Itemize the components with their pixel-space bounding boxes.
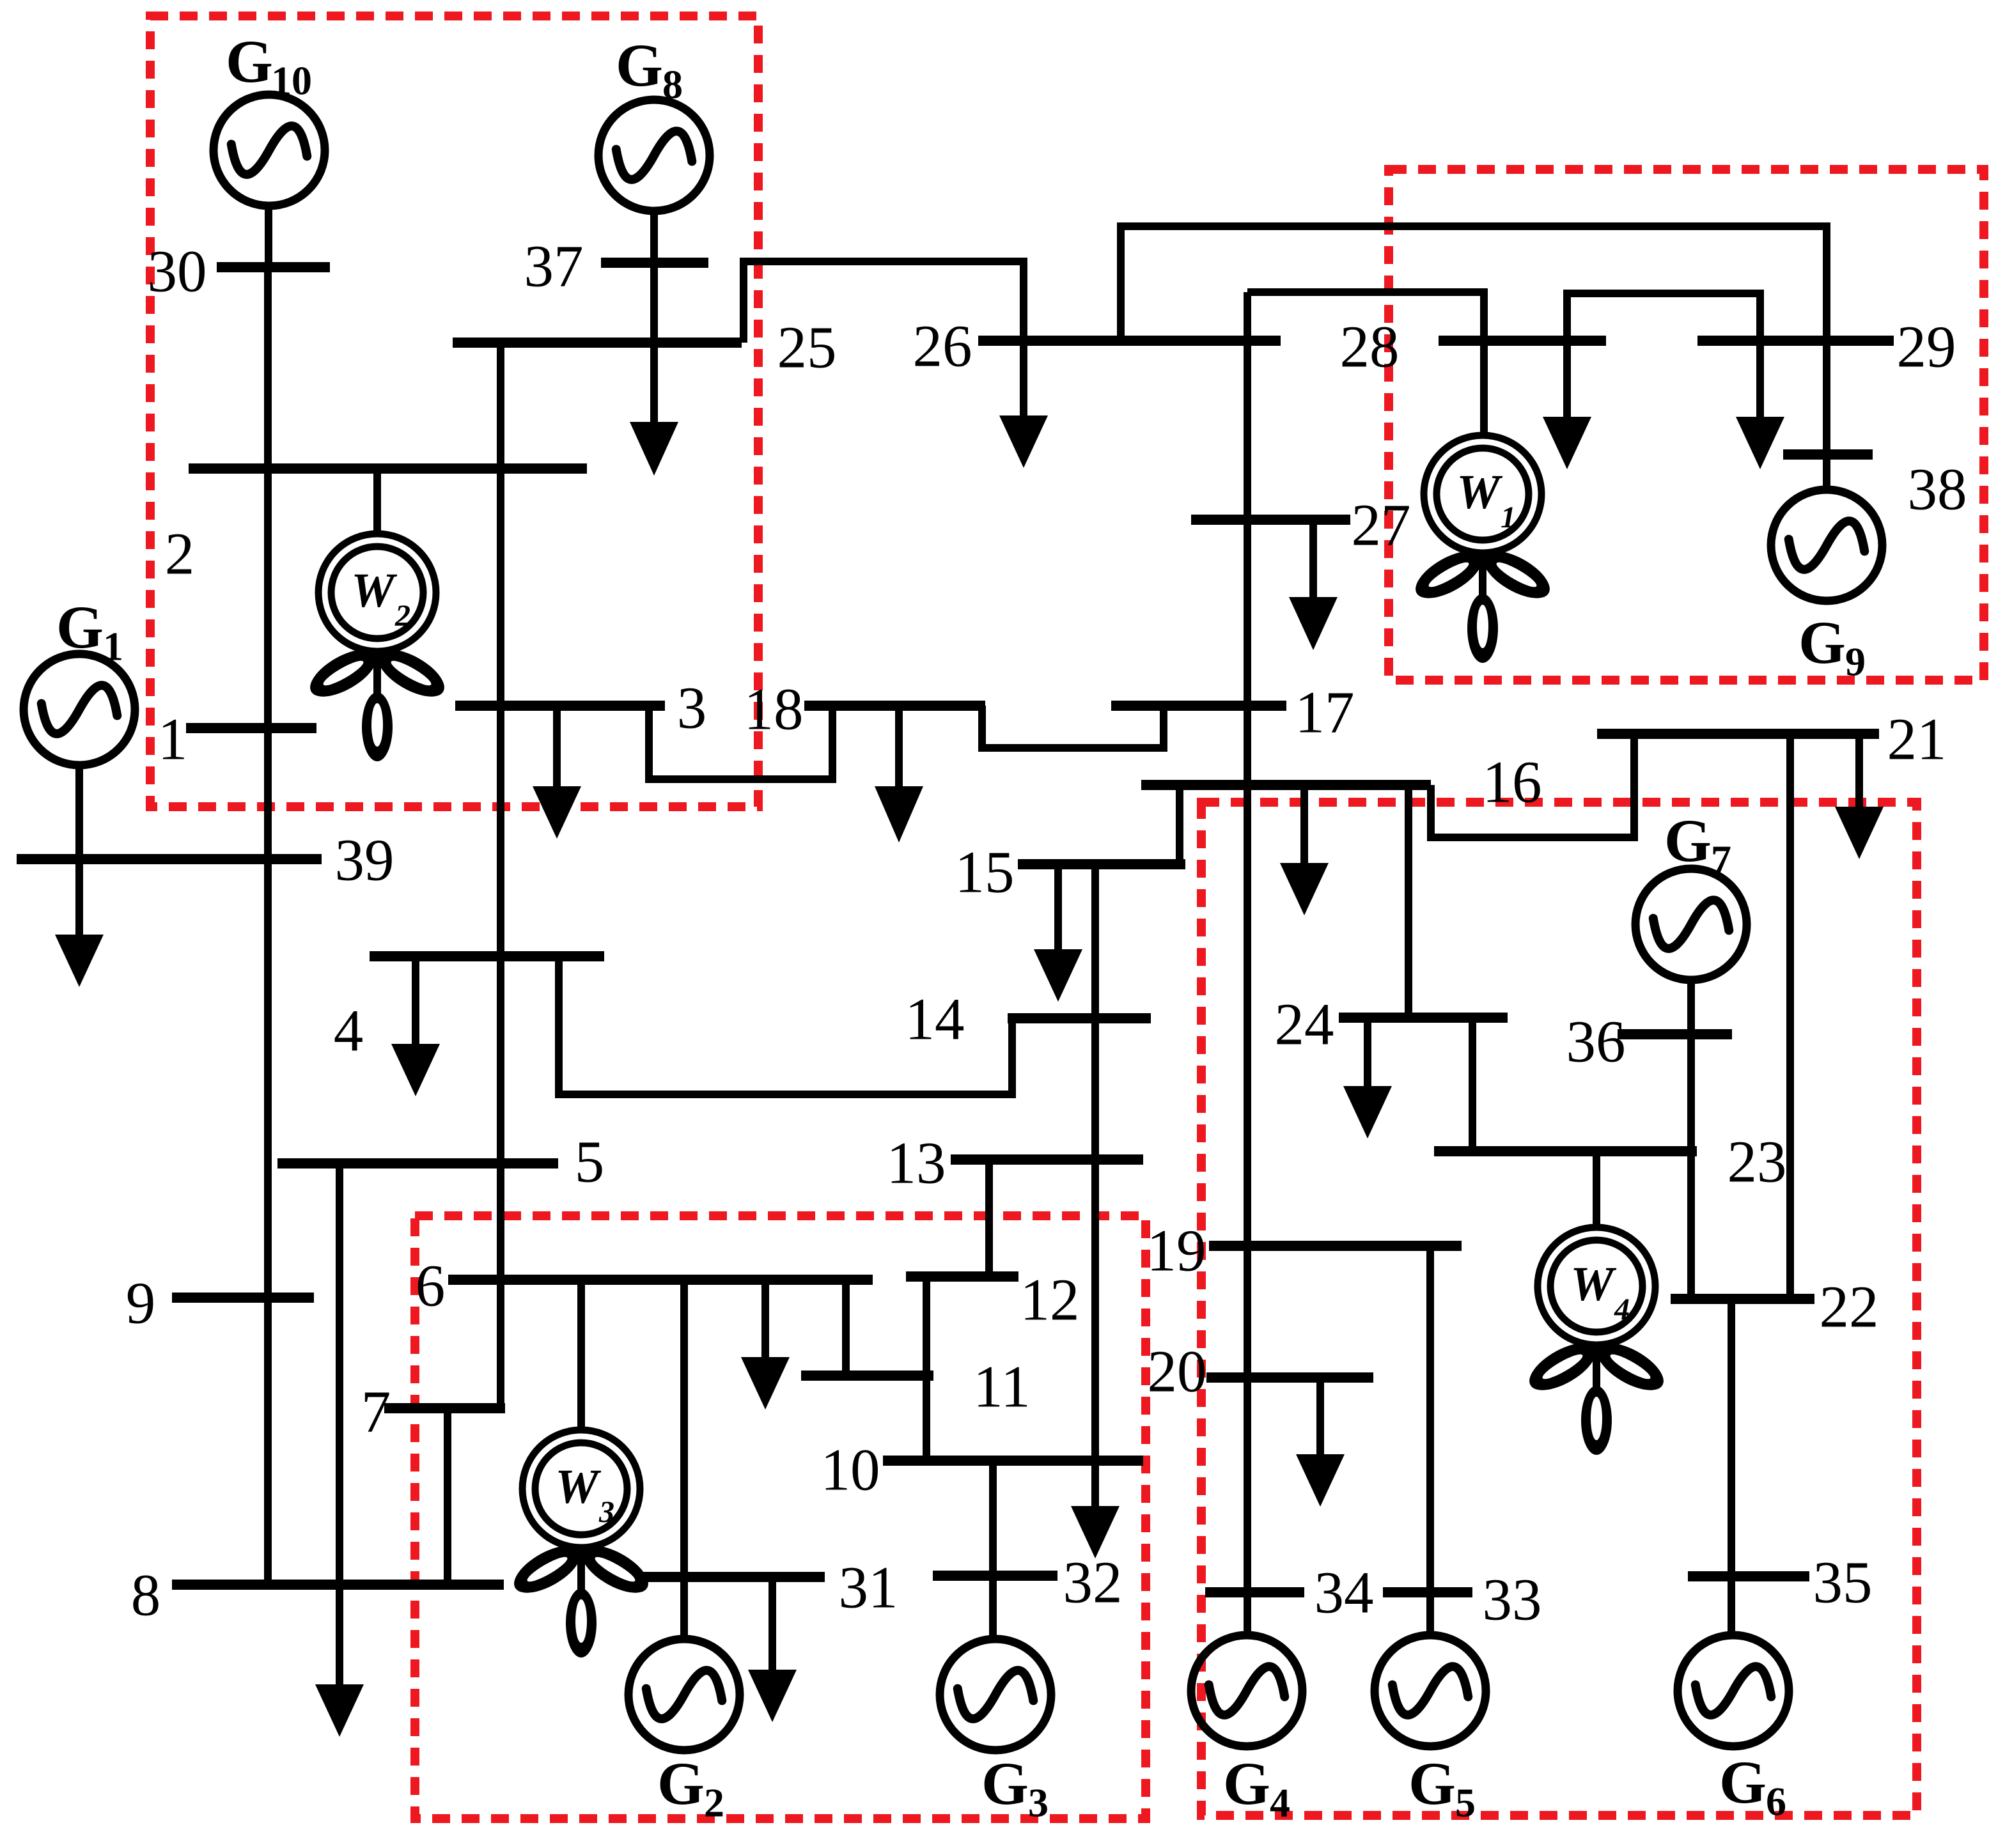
svg-text:23: 23 [1728,1130,1787,1195]
svg-text:9: 9 [1845,639,1866,685]
load arrow bus 3 [533,786,581,839]
svg-text:9: 9 [126,1271,156,1337]
bus 19 bar [1209,1241,1462,1251]
wire link bus3 to bus18 (lower U) [649,706,832,779]
svg-text:11: 11 [973,1355,1031,1420]
load arrow bus 20 [1296,1454,1345,1507]
bus 7 bar [384,1403,505,1413]
bus 38 bar [1783,449,1873,460]
svg-text:19: 19 [1147,1218,1206,1284]
bus 35 bar [1688,1571,1809,1581]
wire link bus25 to bus26 [744,261,1024,343]
svg-text:37: 37 [524,234,584,300]
svg-text:7: 7 [361,1379,391,1445]
svg-text:5: 5 [1455,1780,1476,1826]
red dashed partition box area 1 (buses 30,37,2,1,25-left) [150,16,758,807]
svg-text:20: 20 [1148,1339,1207,1405]
bus 16 bar [1141,780,1431,790]
red dashed partition box area 3 (buses 6,7,W3,31,32,G2,G3) [415,1216,1146,1819]
wire chain 12-11-10 vertical [923,1277,930,1461]
wire line 28-29 jog [1567,293,1760,417]
bus 29 bar [1697,336,1894,346]
load arrow bus 15 [1034,949,1082,1002]
svg-text:24: 24 [1275,992,1334,1058]
svg-text:G: G [616,31,663,99]
wire riser bus13 to bus12 [985,1160,993,1277]
svg-text:17: 17 [1295,680,1355,746]
bus 23 bar [1434,1146,1697,1156]
wire line 7-8 vertical [444,1408,451,1585]
bus 37 bar [601,258,708,268]
svg-text:16: 16 [1483,750,1542,816]
load arrow bus 28 [1543,417,1591,469]
wire chain 19-33-G5 vertical [1426,1246,1434,1636]
wire link bus18 to bus17 (lower U) [982,706,1164,748]
wire line 5-8 vertical with bus8 load arrow [336,1163,343,1686]
generator G8 symbol [598,100,710,211]
svg-text:32: 32 [1063,1550,1123,1616]
red dashed partition box area 4 (buses 19,20,34,33,22,23,35,W4,G4,G5,G6) [1201,802,1917,1815]
svg-text:G: G [1719,1748,1767,1816]
generator G5 symbol [1375,1635,1486,1746]
generator G3 symbol [940,1639,1051,1750]
wire chain 10-32-G3 vertical [989,1461,997,1639]
wire W3 stem to bus 6 [577,1280,585,1431]
svg-text:29: 29 [1897,314,1956,380]
svg-text:21: 21 [1887,707,1947,773]
bus 17 bar [1111,701,1286,711]
bus 36 bar [1618,1029,1732,1039]
svg-text:W: W [1456,465,1503,519]
svg-text:38: 38 [1908,457,1967,523]
svg-text:36: 36 [1566,1009,1626,1075]
svg-text:27: 27 [1352,493,1411,559]
generator G7 symbol [1635,869,1747,980]
bus 3 bar [455,701,665,711]
bus 34 bar [1205,1587,1304,1597]
wire chain 30-2-1-39-9-8 vertical [264,267,272,1585]
bus 27 bar [1191,515,1350,525]
load arrow bus 25 [630,422,678,476]
load arrow bus 18 [875,786,923,842]
wire chain 6-31-G2 vertical [680,1280,688,1639]
svg-text:33: 33 [1483,1567,1542,1633]
wind unit W3 symbol (bus 6) [507,1430,655,1658]
wire chain 15-14-13-10 vertical with bus10 load [1091,864,1099,1507]
bus 30 bar [217,262,330,272]
svg-text:W: W [555,1460,602,1514]
svg-text:14: 14 [905,987,965,1053]
svg-text:34: 34 [1315,1560,1374,1626]
bus 8 bar [172,1580,504,1590]
svg-text:35: 35 [1813,1550,1873,1616]
wire link bus16 to bus21 [1431,734,1634,837]
load arrow bus 31 [748,1670,797,1722]
svg-text:2: 2 [165,522,195,587]
bus 24 bar [1339,1013,1508,1023]
generator G9 symbol [1771,490,1882,601]
svg-text:5: 5 [575,1130,605,1195]
svg-text:4: 4 [1270,1780,1290,1826]
svg-text:3: 3 [598,1495,614,1529]
wire link 26-28 (upper jog) [1247,292,1484,435]
wire riser bus15 to bus16 [1176,785,1183,864]
wire link bus4 to bus14 [559,956,1012,1094]
svg-text:7: 7 [1711,837,1731,883]
generator G6 symbol [1678,1635,1789,1746]
svg-text:G: G [657,1750,705,1817]
svg-text:12: 12 [1020,1268,1080,1333]
bus 2 bar [189,463,587,474]
bus 22 bar [1671,1294,1814,1304]
load arrow bus 24 [1343,1086,1392,1138]
svg-text:G: G [226,27,273,95]
svg-text:G: G [1798,609,1846,676]
svg-text:W: W [351,564,398,617]
wire G1 stem through bus 39 to load arrow [75,763,83,936]
wire bus26 load arrow stem [1020,341,1027,417]
wind unit W1 symbol (bus 28) [1408,435,1557,663]
svg-text:1: 1 [158,707,188,773]
bus 13 bar [951,1154,1143,1165]
svg-text:31: 31 [839,1555,898,1621]
load arrow bus 8 [315,1684,364,1737]
bus 5 bar [277,1158,558,1169]
generator G10 symbol [214,95,325,206]
svg-text:4: 4 [334,998,364,1064]
bus 9 bar [172,1293,314,1303]
svg-text:8: 8 [662,62,683,107]
load arrow bus 6 [741,1357,790,1409]
svg-text:6: 6 [416,1254,446,1319]
bus 21 bar [1597,729,1879,739]
svg-text:13: 13 [887,1131,946,1197]
svg-text:G: G [1408,1750,1456,1817]
wire bus21 load arrow stem [1855,734,1863,808]
bus 18 bar [804,701,985,711]
load arrow bus 21 [1835,807,1884,859]
wire riser bus6 to bus11 [842,1280,850,1376]
bus 6 bar [448,1275,873,1285]
wind unit W2 symbol (bus 2) [303,534,451,761]
bus 31 bar [639,1572,825,1582]
bus 4 bar [370,951,604,961]
svg-text:1: 1 [103,624,123,669]
svg-text:W: W [1570,1257,1617,1311]
svg-text:10: 10 [271,58,312,104]
svg-text:10: 10 [821,1438,880,1503]
wire W4 stem to bus 23 [1593,1151,1600,1229]
wire W2 stem to bus 2 [373,469,381,536]
bus 33 bar [1383,1587,1472,1597]
load arrow bus 10 [1071,1506,1120,1558]
load arrow bus 26 [999,415,1048,468]
bus 28 bar [1439,336,1606,346]
wire chain 22-35-G6 vertical [1728,1299,1735,1636]
wire line 21-22 vertical [1786,734,1794,1299]
bus 14 bar [1008,1013,1151,1023]
svg-text:30: 30 [148,239,207,305]
svg-text:26: 26 [913,314,972,380]
load arrow bus 29 [1736,417,1784,469]
svg-text:G: G [1664,807,1712,874]
bus 25 bar [453,338,742,348]
bus 1 bar [186,723,316,733]
load arrow bus 4 [391,1044,440,1096]
svg-text:4: 4 [1614,1293,1630,1326]
wire G9 stem to bus 38 [1823,454,1830,490]
generator G4 symbol [1191,1635,1302,1746]
generator G1 symbol [24,654,135,765]
load arrow bus 39 [55,935,104,987]
bus 12 bar [906,1271,1018,1282]
bus 26 bar [978,336,1281,346]
bus 39 bar [17,854,322,864]
bus 11 bar [801,1370,933,1381]
svg-text:25: 25 [777,315,837,381]
svg-text:2: 2 [394,599,410,633]
svg-text:18: 18 [744,677,804,743]
svg-text:G: G [1223,1750,1270,1817]
svg-text:2: 2 [704,1780,724,1826]
svg-text:3: 3 [1028,1780,1049,1826]
load arrow bus 16 [1280,863,1329,915]
wire G10 stem to bus 30 [265,206,272,267]
svg-text:G: G [56,593,104,661]
wire chain 25-2-3-4-5-6-7 vertical [497,343,504,1408]
generator G2 symbol [628,1639,740,1750]
wire riser bus24 to bus23 [1469,1018,1476,1151]
bus 20 bar [1206,1372,1373,1383]
svg-text:22: 22 [1820,1275,1879,1340]
load arrow bus 27 [1289,597,1338,650]
bus 10 bar [883,1456,1143,1466]
svg-text:3: 3 [677,676,707,742]
wire G8 stem through bus 37 and bus 25 to load arrow [650,211,658,423]
wire line 16-24 vertical [1405,785,1412,1018]
bus 32 bar [933,1571,1057,1581]
svg-text:1: 1 [1501,501,1516,534]
red dashed partition box area 2 (buses 28-right,29,38,W1,G9) [1389,169,1984,680]
svg-text:15: 15 [955,840,1015,906]
wire long line bus26 to bus29 and G9 (26-29-38) [1121,226,1827,490]
wire line 26-27-17-16-19-20-34 long vertical with G4 [1244,292,1251,1636]
svg-text:8: 8 [131,1563,161,1629]
svg-text:G: G [981,1750,1029,1817]
svg-text:6: 6 [1766,1779,1786,1824]
wire chain G7-36-23-22 vertical [1687,980,1695,1299]
bus 15 bar [1018,859,1185,869]
svg-text:28: 28 [1340,314,1400,380]
svg-text:39: 39 [335,828,394,894]
wind unit W4 symbol (bus 23) [1522,1227,1671,1455]
